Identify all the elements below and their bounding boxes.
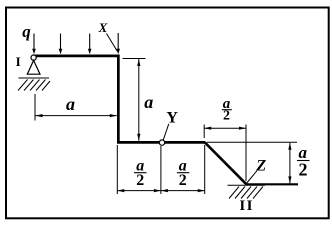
dimension a/2 top-right: left extension line	[203, 125, 205, 139]
dimension a/2 right: fraction label	[297, 143, 310, 179]
svg-text:I: I	[16, 54, 21, 69]
svg-text:II: II	[239, 198, 254, 214]
svg-text:Z: Z	[255, 157, 266, 174]
support I ground line	[19, 77, 50, 79]
hinge Y circle	[159, 140, 164, 145]
dimension a/2 top-right: fraction label	[222, 96, 232, 123]
dimension a vertical: top extension line	[123, 58, 146, 60]
leader line Z	[247, 171, 257, 183]
svg-text:q: q	[22, 22, 31, 41]
svg-text:2: 2	[223, 108, 230, 123]
leader line X	[107, 34, 118, 52]
dimension a/2 bottom-left: fraction label	[134, 157, 147, 189]
svg-text:a: a	[66, 94, 75, 114]
svg-text:2: 2	[179, 172, 187, 189]
distributed load arrow 1	[32, 34, 36, 55]
dimension a/2 bottom-right: fraction label	[177, 157, 189, 189]
dimension a/2 right: dimension line with arrows	[288, 143, 291, 184]
support I pin circle	[31, 55, 36, 60]
dimension a/2 top-right: dimension line with arrows	[204, 127, 246, 130]
support II hatching	[229, 187, 263, 199]
svg-text:2: 2	[136, 172, 144, 189]
bottom dimensions: extension line below bend	[204, 145, 206, 194]
dimension a/2 bottom-right: dimension line with arrows	[161, 189, 205, 192]
dimension a/2 right: top extension line	[207, 141, 297, 143]
dimension a/2 bottom-left: dimension line with arrows	[117, 189, 161, 192]
distributed load arrow 4	[116, 33, 120, 54]
svg-text:2: 2	[299, 160, 308, 180]
dimension a vertical: dimension line with arrows	[137, 59, 140, 141]
svg-text:X: X	[98, 20, 108, 35]
dimension a horizontal: extension line at support I	[34, 94, 36, 121]
svg-text:Y: Y	[166, 110, 178, 127]
support I hatching	[18, 80, 50, 91]
support II ground line	[228, 184, 266, 186]
inclined member (bend to support II)	[205, 142, 247, 184]
distributed load arrow 2	[59, 34, 63, 55]
leader line Y	[163, 124, 169, 140]
bottom dimensions: extension line below X column	[116, 145, 118, 194]
dimension a/2 top-right: right extension line down to support II	[245, 125, 247, 182]
svg-text:a: a	[144, 92, 153, 112]
ground beam line right of support II	[246, 183, 299, 185]
dimension a horizontal: dimension line with arrows	[36, 114, 117, 117]
top beam and right column (member I-X)	[35, 56, 119, 142]
lower horizontal beam (member X-Y-bend)	[117, 141, 205, 144]
distributed load arrow 3	[88, 34, 92, 55]
support I triangle	[27, 60, 40, 74]
bottom dimensions: extension line below hinge Y	[160, 146, 162, 194]
